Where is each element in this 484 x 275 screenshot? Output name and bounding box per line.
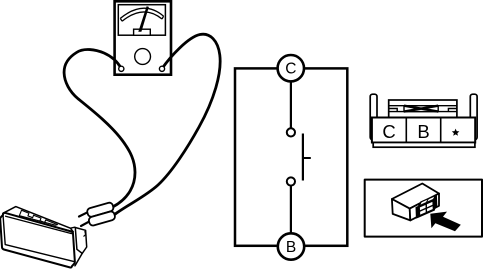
- svg-text:C: C: [382, 121, 395, 142]
- svg-text:B: B: [286, 239, 296, 256]
- svg-text:C: C: [285, 61, 296, 78]
- svg-text:B: B: [417, 121, 429, 142]
